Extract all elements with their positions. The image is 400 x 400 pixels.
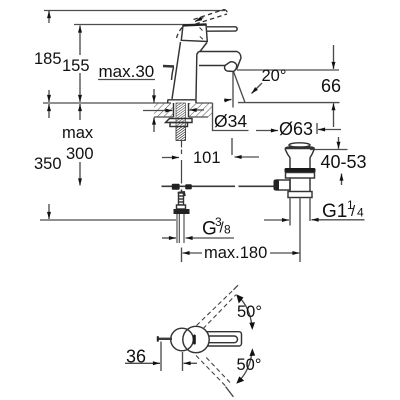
tailpipe [290,198,310,263]
spout level line [237,69,339,71]
svg-text:Ø34: Ø34 [214,111,247,131]
svg-text:40-53: 40-53 [321,152,367,172]
plug cap [289,143,310,147]
seal dark band [285,168,316,173]
dashed rotated handle lower [196,356,230,388]
svg-text:8: 8 [224,223,231,237]
drain rod horizontal [162,185,275,187]
svg-text:Ø63: Ø63 [279,119,313,139]
aerator [225,62,237,72]
counter line mid [196,102,213,104]
dim 350 arrows [48,104,50,118]
counter line left [43,102,171,104]
main circle mask [183,326,209,352]
rod clamp [172,184,192,197]
svg-text:50°: 50° [237,356,262,374]
slab bottom line [154,116,174,118]
step down to label line [213,103,249,131]
pull rod below [181,141,183,184]
dim 185 arrows [48,11,50,23]
main circle [183,326,209,352]
drain body [288,178,312,198]
dim max30 arrows [153,89,155,103]
nut [170,123,188,127]
slot [193,335,196,345]
side port [277,180,290,190]
shank through counter [174,103,189,117]
hose nut G3/8 [174,209,190,214]
G3/8 arrows [162,237,176,239]
hoses [177,214,184,243]
handle bar [203,332,242,346]
dim 101 [162,157,179,159]
body sides [172,42,181,99]
base [168,100,197,103]
reference line 155 level [74,24,195,26]
locknut [286,173,315,179]
rod adjuster [177,190,186,210]
counter line right [238,102,340,104]
cap [181,24,207,41]
pull rod top view [158,338,172,340]
svg-text:max.180: max.180 [204,244,267,262]
top reference line 185 level [44,10,225,12]
20 deg detail [232,72,234,108]
counter slab hatch left [154,103,174,117]
dashed raised lever [177,10,228,39]
svg-text:max: max [62,124,94,142]
threaded stud [176,103,186,141]
FAUCET side view [163,24,241,103]
spout [199,52,241,70]
dim O34 arrows [143,110,173,112]
svg-text:G1: G1 [322,201,347,222]
DRAIN assembly [285,143,315,168]
inner slot outline [207,336,238,343]
svg-text:66: 66 [321,76,341,96]
svg-text:20°: 20° [262,67,287,85]
lever swing arrow [195,18,204,22]
hook pull rod knob [163,65,174,68]
svg-text:101: 101 [193,149,221,167]
svg-text:50°: 50° [237,303,262,321]
washer [166,119,193,123]
dim max300 arrows [79,104,81,120]
upper arc with arrows [238,296,252,326]
dim max.180 [183,252,203,254]
svg-text:4: 4 [357,206,364,220]
dim O63 [256,130,278,132]
long line at 220 (350 end + G1 1/4) [40,219,176,221]
svg-text:155: 155 [62,57,90,75]
counter slab hatch right [189,103,213,117]
dim 66 [333,45,335,69]
svg-text:185: 185 [34,50,62,68]
lever [207,27,237,31]
svg-text:350: 350 [34,155,62,173]
dim 155 arrows [79,26,81,56]
flange trumpet [285,147,315,158]
svg-text:max.30: max.30 [99,62,155,81]
dim 40-53 [310,149,348,151]
svg-text:300: 300 [66,145,94,163]
cylinder [289,158,291,169]
lower arc with arrows [239,352,253,382]
cap circle [171,328,194,351]
dashed rotated handle upper [197,289,237,328]
